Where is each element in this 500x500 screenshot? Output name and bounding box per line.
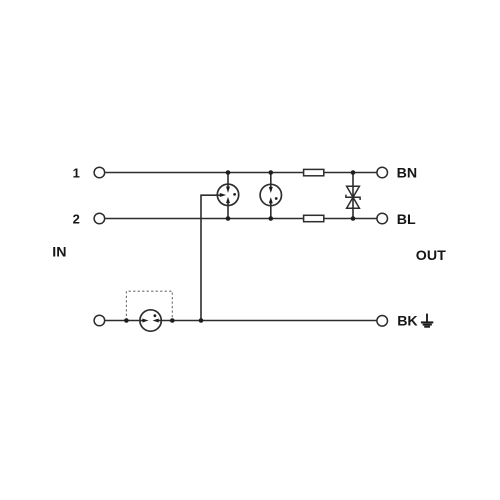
svg-text:BK: BK	[397, 314, 418, 330]
terminal 1 left	[94, 167, 105, 178]
terminal ground left	[94, 315, 105, 326]
junction node rail-dashed-left	[124, 318, 129, 323]
wire GDT F2 vertical branch	[270, 173, 272, 219]
junction node rail-dashed-right	[170, 318, 175, 323]
wire GDT F1 vertical branch	[227, 173, 229, 219]
terminal BN right	[377, 167, 388, 178]
wire line 2 (terminal 2 to terminal BL)	[105, 218, 376, 220]
junction node L1-TVS	[351, 170, 356, 175]
dashed enclosure around F3	[126, 291, 172, 320]
svg-text:2: 2	[73, 212, 80, 227]
gas discharge tube F2 (2-electrode)	[260, 184, 281, 205]
svg-text:OUT: OUT	[416, 248, 446, 264]
junction node L2-TVS	[351, 216, 356, 221]
junction node rail-F1 electrode	[199, 318, 204, 323]
wire F1 left electrode down to ground rail	[201, 195, 218, 320]
svg-text:BN: BN	[397, 166, 418, 182]
junction node L1-F2	[269, 170, 274, 175]
TVS suppressor diode V1	[346, 186, 360, 208]
svg-text:BL: BL	[397, 212, 416, 228]
gas discharge tube F1 (3-electrode)	[217, 184, 238, 205]
terminal BK right	[377, 316, 388, 327]
wire ground rail (left terminal to terminal BK)	[105, 320, 376, 322]
junction node L1-F1	[226, 170, 231, 175]
resistor R2	[304, 215, 324, 221]
wire line 1 (terminal 1 to terminal BN)	[105, 172, 376, 174]
gas discharge tube F3 (bottom, 2-electrode)	[140, 310, 161, 331]
svg-text:1: 1	[73, 166, 80, 181]
junction node L2-F2	[269, 216, 274, 221]
terminal 2 left	[94, 213, 105, 224]
terminal BL right	[377, 213, 388, 224]
ground symbol	[421, 314, 433, 327]
resistor R1	[304, 169, 324, 175]
wire TVS branch	[352, 173, 354, 219]
junction node L2-F1	[226, 216, 231, 221]
svg-text:IN: IN	[52, 245, 66, 261]
